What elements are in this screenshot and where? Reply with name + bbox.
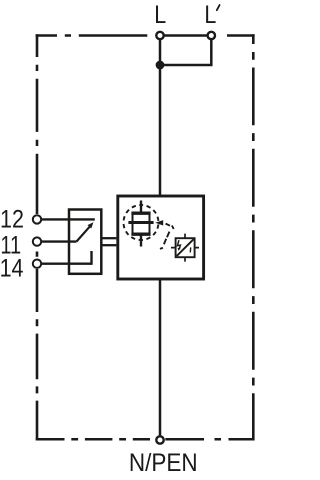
- svg-text:N/PEN: N/PEN: [129, 449, 198, 477]
- enclosure border top (dash-dot): [36, 34, 148, 37]
- svg-text:L: L: [154, 0, 166, 28]
- enclosure border top-right segment: [227, 34, 255, 37]
- enclosure border bottom (dash-dot): [36, 438, 255, 441]
- junction node: [156, 61, 165, 70]
- wire L to L': [163, 34, 208, 37]
- enclosure border right (dash-dot): [252, 34, 255, 440]
- varistor leads: [171, 234, 199, 262]
- wire 12: [42, 218, 95, 220]
- terminal L: [156, 32, 163, 39]
- svg-text:L: L: [204, 0, 216, 28]
- trigger arrowhead: [155, 220, 163, 225]
- wire main box to N/PEN: [159, 279, 162, 437]
- switch arm arrowhead: [88, 222, 94, 228]
- spark gap bottom lead: [140, 234, 142, 247]
- spark gap middle electrode: [128, 221, 153, 224]
- spark gap electrode left side: [132, 213, 134, 234]
- varistor lightning bolt: [178, 240, 181, 249]
- enclosure border left (dash-dot): [36, 34, 39, 440]
- terminal 11: [33, 237, 41, 245]
- varistor diagonal: [177, 239, 194, 256]
- wire 14: [42, 263, 92, 265]
- spark gap dashed circle F1: [123, 205, 158, 240]
- terminal 12: [33, 215, 41, 223]
- contact 14 stub: [90, 251, 92, 265]
- switch arm: [76, 226, 90, 241]
- trigger dashed curve: [160, 224, 174, 249]
- terminal L': [208, 32, 215, 39]
- main arrester box U1: [118, 196, 204, 279]
- wire from L down to junction and main box: [159, 39, 162, 196]
- switch box S: [69, 210, 101, 274]
- varistor tick on diagonal: [189, 247, 191, 252]
- mechanical link lower line: [101, 244, 116, 246]
- wire 11: [42, 240, 77, 242]
- svg-text:12: 12: [0, 205, 24, 233]
- wire L' drop to junction: [163, 39, 211, 65]
- svg-text:14: 14: [0, 254, 24, 282]
- terminal 14: [33, 260, 41, 268]
- terminal N/PEN: [156, 436, 163, 443]
- spark gap top lead: [140, 201, 142, 214]
- varistor box: [176, 238, 195, 257]
- spark gap top electrode bar: [131, 211, 150, 214]
- spark gap electrode right side: [149, 213, 151, 234]
- spark gap bottom electrode bar: [131, 232, 150, 235]
- mechanical link upper line: [101, 237, 116, 239]
